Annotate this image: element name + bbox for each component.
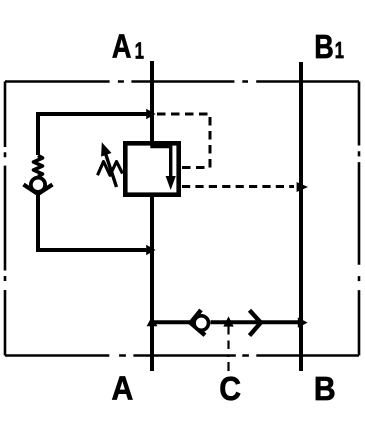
svg-text:C: C bbox=[219, 370, 241, 408]
svg-text:B: B bbox=[314, 30, 334, 66]
svg-text:B: B bbox=[314, 370, 336, 408]
svg-text:1: 1 bbox=[135, 39, 144, 64]
svg-text:1: 1 bbox=[335, 39, 344, 64]
svg-text:A: A bbox=[112, 369, 134, 407]
svg-text:A: A bbox=[112, 29, 132, 65]
